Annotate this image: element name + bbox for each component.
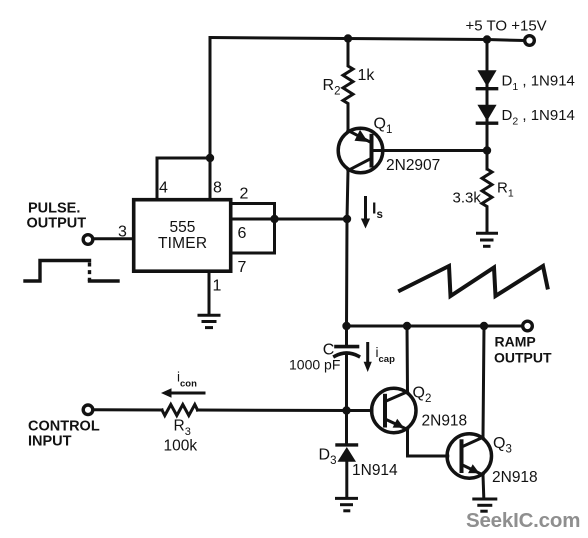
svg-text:OUTPUT: OUTPUT bbox=[494, 350, 552, 366]
svg-text:R1: R1 bbox=[497, 180, 514, 200]
svg-text:Q3: Q3 bbox=[493, 435, 512, 456]
svg-text:D2 , 1N914: D2 , 1N914 bbox=[502, 107, 575, 128]
wire Q2 emitter to Q3 base bbox=[408, 430, 448, 457]
svg-text:INPUT: INPUT bbox=[28, 434, 72, 450]
svg-text:4: 4 bbox=[159, 180, 168, 197]
svg-text:555: 555 bbox=[170, 219, 196, 236]
ground 555 pin 1 bbox=[199, 315, 219, 327]
wire pin 2 stub bbox=[231, 202, 275, 205]
wire R3 to control node bbox=[198, 409, 347, 413]
transistor Q3 bbox=[447, 434, 491, 478]
label PULSE OUTPUT bbox=[27, 201, 87, 232]
svg-text:RAMP: RAMP bbox=[495, 334, 536, 350]
diode D3 bbox=[337, 411, 357, 498]
terminal power input bbox=[525, 36, 535, 46]
node Q2 collector tie bbox=[403, 322, 411, 330]
svg-text:2N918: 2N918 bbox=[492, 469, 538, 486]
svg-text:7: 7 bbox=[238, 259, 247, 276]
ground Q3 bbox=[474, 499, 496, 511]
node rail-D1 junction bbox=[483, 35, 491, 43]
svg-text:+5 TO +15V: +5 TO +15V bbox=[466, 18, 547, 35]
svg-text:R3: R3 bbox=[174, 418, 191, 439]
wire pin 3 output bbox=[95, 237, 133, 240]
svg-text:icap: icap bbox=[376, 345, 396, 365]
wire control input to R3 bbox=[95, 408, 162, 411]
svg-text:D1 , 1N914: D1 , 1N914 bbox=[502, 73, 575, 94]
svg-text:SeekIC.com: SeekIC.com bbox=[466, 509, 580, 532]
svg-text:1: 1 bbox=[213, 278, 222, 295]
svg-text:2: 2 bbox=[240, 186, 249, 203]
node rail-R2 junction bbox=[344, 34, 352, 42]
node Q3 collector tie bbox=[480, 322, 488, 330]
node D2-R1-base junction bbox=[483, 146, 491, 154]
svg-text:R2: R2 bbox=[323, 77, 341, 98]
node cap top bbox=[342, 322, 350, 330]
svg-text:100k: 100k bbox=[164, 438, 198, 455]
resistor R3 bbox=[162, 405, 198, 416]
current arrow icon bbox=[161, 388, 204, 397]
svg-text:Is: Is bbox=[372, 201, 383, 222]
svg-text:TIMER: TIMER bbox=[158, 235, 207, 252]
pulse waveform symbol bbox=[25, 261, 118, 282]
node pin4/pin8 tie bbox=[206, 154, 214, 162]
wire pin 6 to collector node bbox=[231, 218, 347, 221]
svg-text:3.3k: 3.3k bbox=[453, 190, 482, 207]
wire left rail drop to pin 8 bbox=[209, 38, 212, 199]
svg-text:8: 8 bbox=[213, 180, 222, 197]
svg-text:OUTPUT: OUTPUT bbox=[27, 216, 87, 232]
wire Q2 collector up bbox=[406, 326, 410, 392]
svg-text:2N918: 2N918 bbox=[422, 413, 468, 430]
svg-text:6: 6 bbox=[238, 225, 247, 242]
terminal ramp output bbox=[523, 321, 533, 331]
transistor Q1 bbox=[338, 128, 383, 173]
svg-text:CONTROL: CONTROL bbox=[28, 419, 100, 435]
wire pin 7 stub bbox=[231, 252, 275, 255]
svg-text:1N914: 1N914 bbox=[352, 462, 398, 479]
diode D2 bbox=[477, 105, 496, 123]
ground D3 bbox=[337, 498, 357, 510]
transistor Q2 bbox=[372, 388, 416, 432]
label RAMP OUTPUT bbox=[494, 334, 552, 366]
label +5 TO +15V bbox=[466, 18, 547, 35]
sawtooth waveform symbol bbox=[400, 266, 548, 296]
terminal control input bbox=[83, 405, 93, 415]
wire control node to Q2 base bbox=[347, 409, 373, 412]
ground R1 bbox=[478, 233, 497, 246]
terminal pulse output bbox=[83, 235, 93, 245]
svg-text:1000 pF: 1000 pF bbox=[289, 357, 340, 373]
wire pin 1 to ground bbox=[208, 272, 211, 315]
diode D1 bbox=[477, 70, 496, 88]
svg-text:PULSE.: PULSE. bbox=[28, 201, 80, 217]
wire pin 4 loop bbox=[157, 158, 210, 198]
node control/cap/D3/Q2 junction bbox=[342, 406, 350, 414]
wire D1-D2-R1 vertical bbox=[486, 40, 489, 170]
wire Q3 collector up bbox=[483, 326, 484, 437]
wire ramp output rail bbox=[347, 325, 522, 328]
current arrow icap bbox=[364, 344, 372, 373]
label CONTROL INPUT bbox=[28, 419, 100, 450]
wire pin 2/6/7 tie vertical bbox=[273, 204, 276, 254]
wire Q1 collector down bbox=[347, 171, 349, 327]
svg-text:D3: D3 bbox=[319, 447, 337, 468]
IC U1 555 timer bbox=[134, 200, 231, 272]
wire top power rail bbox=[210, 38, 523, 41]
capacitor C bbox=[335, 326, 359, 411]
current arrow Is bbox=[361, 198, 370, 229]
node pin6-collector junction bbox=[343, 215, 351, 223]
resistor R1 bbox=[482, 151, 492, 233]
svg-text:2N2907: 2N2907 bbox=[386, 157, 440, 174]
svg-text:1k: 1k bbox=[358, 67, 376, 84]
wire Q3 emitter down bbox=[482, 475, 486, 498]
wire Q1 base to D2/R1 node bbox=[374, 149, 488, 152]
resistor R2 bbox=[343, 39, 353, 130]
node pin2/6 junction bbox=[270, 215, 278, 223]
svg-text:icon: icon bbox=[177, 370, 197, 390]
